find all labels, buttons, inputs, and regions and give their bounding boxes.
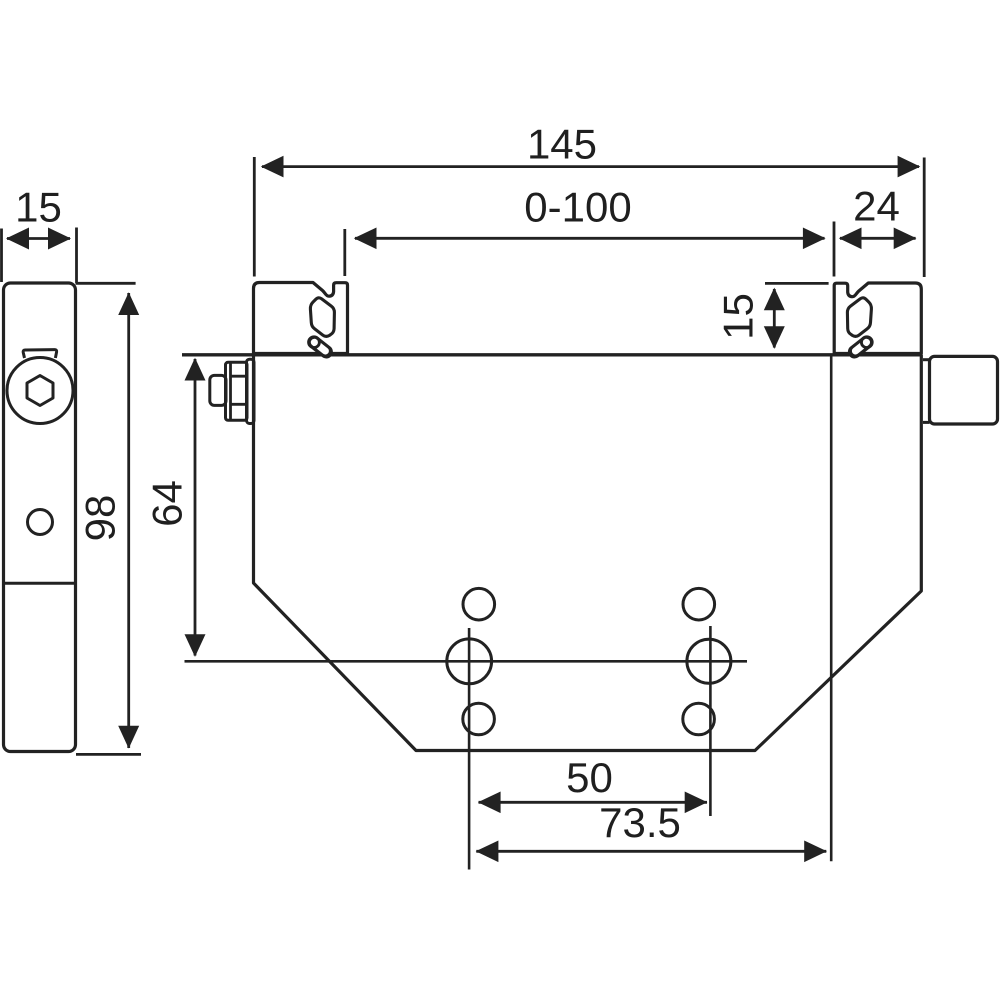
- side view clamp tab: [23, 350, 57, 358]
- left clip hook: [315, 343, 327, 352]
- dim 15 left line: [7, 237, 70, 240]
- left clip outline: [254, 283, 348, 354]
- svg-text:0-100: 0-100: [524, 184, 631, 231]
- svg-text:24: 24: [853, 183, 900, 230]
- dim 98 line: [127, 293, 130, 748]
- crosshair vertical right / ext line: [709, 626, 712, 816]
- crosshair vertical left / ext line: [468, 628, 471, 870]
- dim 15 left ext right: [75, 228, 78, 284]
- ext line 73.5 right: [830, 356, 833, 862]
- front view top edge line: [182, 353, 922, 356]
- dim 145 line: [262, 165, 919, 168]
- svg-text:15: 15: [715, 293, 762, 340]
- left bolt flange: [247, 359, 255, 423]
- dim 0-100 ext left: [343, 229, 346, 276]
- arrowhead 98 top: [118, 292, 139, 315]
- side view hex socket: [27, 376, 53, 406]
- left bolt hex flats: [229, 363, 232, 421]
- arrowhead 98 bottom: [118, 726, 139, 749]
- hole top-right: [683, 588, 715, 620]
- dim 73.5 line: [476, 850, 826, 853]
- right clip outline: [834, 283, 921, 354]
- dim 15 left ext left: [0, 229, 3, 283]
- svg-text:64: 64: [144, 480, 191, 527]
- dim 15 right line: [773, 289, 776, 348]
- hole bottom-right: [683, 703, 715, 735]
- right clip slot: [847, 298, 871, 337]
- svg-text:50: 50: [566, 754, 613, 801]
- dim 64 line: [194, 359, 197, 656]
- arrowhead 145 left: [261, 156, 284, 178]
- crosshair horizontal line: [185, 660, 748, 663]
- svg-text:73.5: 73.5: [599, 799, 681, 846]
- dim 15 right ext top: [765, 282, 829, 285]
- side view small hole: [28, 510, 53, 535]
- svg-text:15: 15: [15, 184, 62, 231]
- arrowhead 73.5 right: [804, 841, 827, 863]
- dim 50 line: [479, 801, 708, 804]
- arrowhead 15 right top: [764, 288, 785, 311]
- arrowhead 0-100 left: [354, 228, 377, 250]
- side view body: [4, 283, 76, 752]
- dim 145 ext left: [253, 157, 256, 277]
- right clip hook: [855, 343, 867, 352]
- arrowhead 73.5 left: [476, 841, 499, 863]
- arrowhead 15 left right: [48, 228, 71, 250]
- big hole left: [447, 639, 492, 684]
- arrowhead 145 right: [898, 156, 921, 178]
- arrowhead 24 left: [839, 228, 862, 250]
- right knob: [930, 356, 998, 424]
- dim 24 ext left: [833, 222, 836, 277]
- side view divider line: [4, 582, 76, 585]
- svg-text:98: 98: [77, 495, 124, 542]
- arrowhead 64 bottom: [185, 634, 206, 657]
- dim 0-100 line: [355, 237, 825, 240]
- big hole right: [687, 639, 731, 683]
- arrowhead 50 left: [478, 792, 501, 814]
- arrowhead 24 right: [894, 228, 917, 250]
- side view screw head circle: [7, 358, 73, 424]
- dim 98 ext bottom: [76, 753, 141, 756]
- left bolt hex head: [226, 362, 248, 420]
- hole bottom-left: [463, 703, 495, 735]
- arrowhead 0-100 right: [803, 228, 826, 250]
- dim 98 ext top: [76, 282, 136, 285]
- front view body outline: [254, 355, 922, 751]
- hole top-left: [463, 588, 495, 620]
- right knob shaft: [923, 358, 930, 361]
- svg-text:145: 145: [527, 121, 597, 168]
- arrowhead 15 right bottom: [764, 326, 785, 349]
- arrowhead 15 left left: [6, 228, 29, 250]
- arrowhead 64 top: [185, 358, 206, 381]
- dim 145 ext right: [923, 158, 926, 278]
- left bolt tip: [210, 375, 226, 405]
- arrowhead 50 right: [685, 792, 708, 814]
- dim 24 line: [840, 237, 916, 240]
- left clip slot: [310, 298, 334, 337]
